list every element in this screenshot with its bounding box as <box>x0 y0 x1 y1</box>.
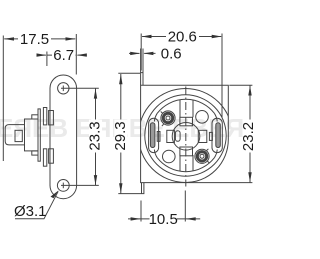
top clip foot <box>49 111 54 125</box>
contact top-left nub <box>161 112 164 127</box>
bracket plate obround <box>50 75 77 199</box>
top hole center tick <box>62 86 64 92</box>
dim 20.6 ext right <box>221 34 223 118</box>
vertical centerline <box>185 87 187 187</box>
arrow 6.7 left <box>37 53 47 56</box>
contact bottom-left <box>163 150 176 163</box>
svg-text:20.6: 20.6 <box>168 29 197 46</box>
hub top arm <box>180 117 193 126</box>
arrow dia3.1 <box>51 190 59 198</box>
dia 3.1 leader <box>15 191 58 219</box>
svg-text:Ø3.1: Ø3.1 <box>14 203 47 220</box>
left lug lens <box>150 123 155 148</box>
top band left curl <box>154 113 157 121</box>
contact top-right <box>196 111 209 124</box>
dim 29.3 ext top <box>118 72 140 74</box>
insulator body block <box>25 119 39 151</box>
dim 20.6 line <box>142 36 221 38</box>
svg-text:0.6: 0.6 <box>161 45 182 62</box>
arrow 17.5 left <box>4 37 14 40</box>
dim 10.5 ext right <box>184 191 186 222</box>
dim 10.5 ext left <box>140 201 142 222</box>
svg-text:29.3: 29.3 <box>112 121 129 150</box>
bottom hole center tick <box>62 183 64 189</box>
hub key slot <box>175 131 180 142</box>
left keying lug <box>149 118 159 152</box>
center hub <box>172 123 200 151</box>
hub right arm <box>198 130 207 142</box>
hub left arm <box>167 130 175 142</box>
flange <box>38 109 40 161</box>
dim 0.6 ext lines <box>141 49 143 73</box>
dim 17.5 line <box>4 38 75 40</box>
dim 17.5/6.7 ext right <box>75 34 77 75</box>
socket rim circle <box>145 95 226 176</box>
dim 23.2 ext bottom <box>186 182 252 184</box>
svg-text:23.2: 23.2 <box>240 122 257 151</box>
arrow 17.5 right <box>66 37 76 40</box>
contact top-left ring <box>161 111 175 125</box>
dim 0.6 tails <box>129 52 156 54</box>
top clip leg <box>43 108 46 125</box>
arrow 20.6 left <box>142 35 152 38</box>
right lug inner rect <box>209 132 212 140</box>
dim texts <box>14 29 257 228</box>
dim 23.3 line <box>95 88 97 185</box>
plate bottom-left tab <box>142 183 144 194</box>
arrow 23.2 bottom <box>248 172 251 182</box>
right lug lens <box>216 123 221 148</box>
right keying lug <box>212 118 222 152</box>
arrow 0.6 right <box>143 52 153 55</box>
top band notch walls <box>180 100 193 117</box>
bottom hole <box>57 180 69 192</box>
contact bottom-right nub <box>207 149 210 163</box>
center pin cylinder <box>5 125 24 145</box>
bottom band right curl <box>214 150 217 158</box>
top band right curl <box>214 113 217 121</box>
arrow 6.7 right <box>77 53 87 56</box>
dim 6.7 ext left <box>46 52 48 67</box>
dim 23.2 line <box>249 85 251 182</box>
body bottom bump <box>32 151 38 155</box>
top hole <box>58 83 69 94</box>
svg-text:23.3: 23.3 <box>86 121 103 150</box>
dim 20.6 ext left <box>140 34 142 71</box>
bottom clip foot <box>49 149 54 163</box>
socket flange circle <box>139 89 233 183</box>
bottom band notch walls <box>180 155 193 171</box>
arrow 29.3 top <box>119 74 122 84</box>
arrow 23.3 bottom <box>94 175 97 185</box>
mounting plate outline <box>141 85 229 182</box>
contact bottom-right ring <box>195 149 209 163</box>
arrow 0.6 left <box>130 52 140 55</box>
bottom insulator band arc <box>157 158 214 172</box>
arrowheads <box>4 35 252 221</box>
svg-text:6.7: 6.7 <box>53 47 74 64</box>
top insulator band arc <box>157 99 214 113</box>
dim 29.3 line <box>120 74 122 194</box>
plate top-left ear <box>141 73 143 86</box>
arrow 23.2 top <box>248 86 251 96</box>
body top bump <box>32 115 38 119</box>
dim 17.5 ext left <box>2 36 4 162</box>
bottom band left curl <box>154 150 157 158</box>
arrow 23.3 top <box>94 89 97 99</box>
arrow 20.6 right <box>212 35 222 38</box>
dim 10.5 line <box>128 218 200 220</box>
dim 23.3 ext top <box>61 87 99 89</box>
dim 6.7 arrows tails <box>37 54 87 56</box>
arrow 29.3 bottom <box>119 183 122 193</box>
dim 23.2 ext top <box>229 84 252 86</box>
left lug inner rect <box>157 132 160 142</box>
bottom clip leg <box>43 149 46 166</box>
text masks <box>18 30 256 226</box>
svg-text:10.5: 10.5 <box>149 211 178 228</box>
arrow 10.5 right <box>186 217 196 220</box>
svg-text:17.5: 17.5 <box>20 31 49 48</box>
dim 23.3 ext bottom <box>61 184 99 186</box>
dim 6.7 text stubs <box>47 54 76 56</box>
pin notch <box>15 130 22 141</box>
hub bottom arm <box>180 147 193 156</box>
arrow 10.5 left <box>131 217 141 220</box>
dim 29.3 ext bottom <box>118 193 141 195</box>
